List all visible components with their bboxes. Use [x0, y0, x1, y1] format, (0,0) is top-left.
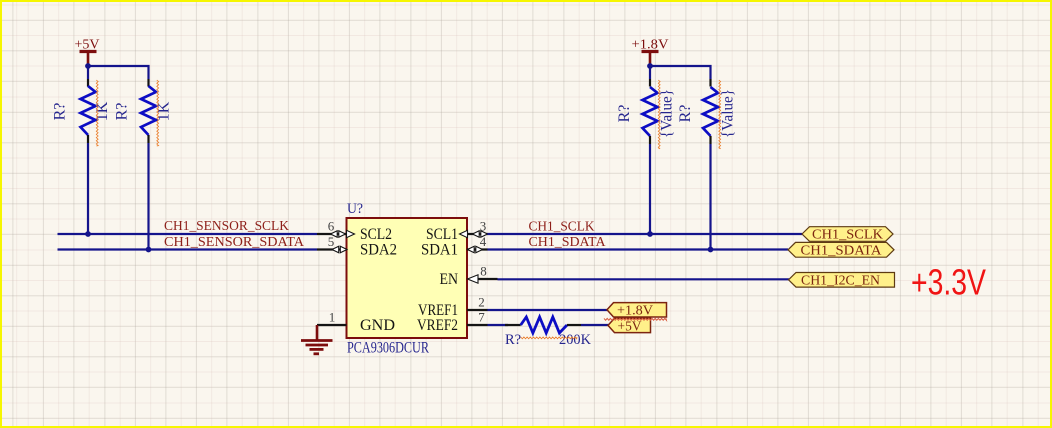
wire +5V node down to R1: [87, 66, 89, 79]
wire R1 bottom to SCLK net: [87, 143, 89, 234]
svg-text:{Value}: {Value}: [720, 89, 737, 138]
svg-text:CH1_SDATA: CH1_SDATA: [529, 234, 606, 249]
svg-text:2: 2: [478, 295, 485, 310]
svg-text:SDA1: SDA1: [421, 241, 458, 258]
wire CH1_SENSOR_SCLK: [58, 233, 318, 235]
svg-text:+3.3V: +3.3V: [911, 262, 986, 303]
pin 3 SCL1 (I/O): [426, 219, 488, 243]
wire R5 to +5V port: [581, 324, 609, 326]
svg-text:R?: R?: [113, 103, 130, 121]
resistor R5 200K: [505, 317, 592, 348]
wire VREF1 to +1.8V port: [488, 309, 609, 311]
wire R2 bottom to SDATA net: [147, 143, 149, 250]
svg-text:SCL1: SCL1: [426, 226, 458, 243]
svg-text:CH1_I2C_EN: CH1_I2C_EN: [801, 272, 880, 287]
svg-text:GND: GND: [360, 317, 395, 334]
resistor R? {Value} (right pull-up 2): [677, 79, 737, 149]
svg-text:VREF2: VREF2: [417, 317, 458, 334]
junction dot R2/SDATA: [146, 247, 152, 253]
pin 2 VREF1: [418, 295, 488, 319]
pin 8 EN (input): [440, 264, 498, 288]
port CH1_I2C_EN: [789, 272, 895, 287]
svg-text:{Value}: {Value}: [659, 89, 676, 138]
port CH1_SDATA: [788, 242, 894, 257]
svg-text:PCA9306DCUR: PCA9306DCUR: [347, 340, 429, 357]
svg-text:EN: EN: [440, 271, 459, 288]
svg-text:CH1_SCLK: CH1_SCLK: [812, 227, 883, 242]
wire CH1_SENSOR_SDATA: [58, 248, 318, 250]
wire CH1_SCLK: [488, 233, 803, 235]
wire +1.8V junction to R4 top: [650, 66, 711, 79]
svg-text:1: 1: [329, 310, 336, 325]
wire R3 bottom to CH1_SCLK net: [649, 144, 651, 234]
resistor R? 1K (left pull-up 1): [52, 79, 112, 146]
svg-text:CH1_SENSOR_SDATA: CH1_SENSOR_SDATA: [164, 234, 304, 249]
wire EN to port CH1_I2C_EN: [498, 278, 790, 280]
svg-text:3: 3: [480, 219, 487, 234]
junction dot at +1.8V node: [647, 63, 653, 69]
wire +5V junction to R2 top: [88, 66, 149, 79]
wire R4 bottom to CH1_SDATA net: [709, 144, 711, 250]
power port +1.8V (box style): [607, 302, 667, 317]
pin 1 GND: [317, 310, 395, 334]
compile-mask squiggle on +5V port: [604, 318, 666, 320]
svg-text:200K: 200K: [559, 332, 592, 348]
op-amp/IC U? PCA9306DCUR body: [347, 218, 468, 338]
wire CH1_SDATA: [488, 248, 789, 250]
svg-text:R?: R?: [505, 332, 521, 348]
svg-text:4: 4: [480, 234, 487, 249]
power port +5V (box style): [608, 318, 651, 333]
svg-text:R?: R?: [616, 105, 633, 123]
pin 5 SDA2 (I/O): [317, 234, 397, 258]
svg-text:7: 7: [478, 310, 485, 325]
pin 7 VREF2: [417, 310, 488, 334]
junction dot R4/CH1_SDATA: [708, 247, 714, 253]
power port +1.8V: [632, 38, 669, 67]
svg-text:CH1_SDATA: CH1_SDATA: [801, 242, 882, 257]
svg-text:R?: R?: [52, 103, 69, 121]
svg-text:CH1_SENSOR_SCLK: CH1_SENSOR_SCLK: [164, 218, 289, 233]
svg-text:5: 5: [328, 234, 335, 249]
svg-text:CH1_SCLK: CH1_SCLK: [529, 219, 595, 234]
ground (GND pin): [301, 325, 333, 354]
power port +5V: [75, 38, 100, 67]
pin 6 SCL2 (I/O): [317, 219, 392, 243]
svg-text:R?: R?: [677, 105, 694, 123]
wire VREF2 to R5: [488, 324, 509, 326]
resistor R? {Value} (right pull-up 1): [616, 79, 676, 149]
svg-text:+5V: +5V: [618, 318, 642, 333]
svg-text:6: 6: [328, 219, 335, 234]
svg-text:SDA2: SDA2: [360, 241, 397, 258]
pin 4 SDA1 (I/O): [421, 234, 488, 258]
junction dot at +5V node: [85, 63, 91, 69]
junction dot R1/SCLK: [85, 231, 91, 237]
resistor R? 1K (left pull-up 2): [113, 79, 172, 146]
svg-text:U?: U?: [347, 201, 363, 217]
svg-text:8: 8: [480, 264, 487, 279]
junction dot R3/CH1_SCLK: [647, 231, 653, 237]
svg-text:SCL2: SCL2: [360, 226, 392, 243]
svg-text:+1.8V: +1.8V: [617, 302, 653, 317]
wire +1.8V node down to R3: [649, 66, 651, 79]
port CH1_SCLK: [802, 227, 893, 242]
